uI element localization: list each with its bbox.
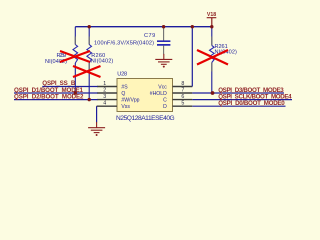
wire: V18 power rail bbox=[75, 26, 212, 28]
wire: right resistor column (rail to MODE2) bbox=[88, 27, 90, 100]
svg-text:U28: U28 bbox=[117, 72, 127, 78]
lead gray upper R261 bbox=[211, 37, 213, 46]
wire Vss (pin 4) down bbox=[96, 106, 98, 122]
svg-text:D: D bbox=[163, 104, 167, 110]
svg-text:#HOLD: #HOLD bbox=[150, 91, 167, 97]
svg-text:1: 1 bbox=[103, 81, 106, 87]
svg-text:C79: C79 bbox=[144, 33, 155, 39]
svg-text:C: C bbox=[163, 98, 167, 104]
svg-text:Vcc: Vcc bbox=[158, 85, 167, 91]
pin 7 stub bbox=[173, 92, 193, 94]
lead gray upper R259 bbox=[74, 37, 76, 45]
wire QSPI_SS_B bbox=[42, 86, 97, 88]
resistor R261 bbox=[210, 46, 215, 63]
pin 8 stub bbox=[173, 86, 193, 88]
svg-text:QSPI_D0/BOOT_MODE0: QSPI_D0/BOOT_MODE0 bbox=[218, 100, 285, 107]
junction dot MODE3/R261 bbox=[211, 91, 215, 95]
capacitor C79 lead upper bbox=[163, 27, 165, 41]
capacitor C79 plates bbox=[157, 41, 170, 45]
svg-text:#S: #S bbox=[121, 85, 128, 91]
svg-text:2: 2 bbox=[103, 88, 106, 94]
svg-text:NI(0402): NI(0402) bbox=[91, 58, 114, 64]
pin 5 stub bbox=[173, 105, 193, 107]
resistor R259 bbox=[73, 45, 78, 64]
NI cross X over R259/R260 bbox=[60, 51, 90, 62]
svg-text:4: 4 bbox=[103, 101, 106, 107]
IC U28 body bbox=[117, 79, 173, 112]
lead gray lower R261 bbox=[211, 63, 213, 72]
wire Vcc riser (pin 8 to rail) bbox=[191, 27, 193, 87]
wire: left resistor column (rail to MODE1) bbox=[74, 27, 76, 93]
capacitor C79 lead lower bbox=[163, 46, 165, 55]
junction dot MODE2/R260 bbox=[88, 98, 91, 101]
svg-text:N25Q128A11ESE40G: N25Q128A11ESE40G bbox=[116, 115, 175, 122]
svg-text:QSPI_D2/BOOT_MODE2: QSPI_D2/BOOT_MODE2 bbox=[14, 93, 84, 100]
junction dot MODE1/R259 bbox=[74, 91, 77, 94]
NI cross X over R261 bbox=[197, 50, 228, 65]
svg-text:#W/Vpp: #W/Vpp bbox=[121, 98, 139, 104]
wire QSPI_D1/BOOT_MODE1 bbox=[14, 92, 98, 94]
svg-text:Vss: Vss bbox=[121, 104, 130, 110]
svg-text:100nF/6.3V/X5R(0402): 100nF/6.3V/X5R(0402) bbox=[94, 40, 154, 46]
ground below C79 bbox=[155, 54, 172, 64]
lead gray lower R260 bbox=[88, 63, 90, 72]
pin 1 stub bbox=[97, 86, 117, 88]
svg-text:Q: Q bbox=[121, 91, 125, 97]
svg-text:8: 8 bbox=[181, 81, 184, 87]
wire QSPI_SCLK/BOOT_MODE4 bbox=[192, 99, 292, 101]
resistor R260 bbox=[87, 45, 92, 64]
svg-text:3: 3 bbox=[103, 94, 106, 100]
power symbol V18 bbox=[207, 12, 217, 27]
svg-text:5: 5 bbox=[181, 101, 184, 107]
svg-text:6: 6 bbox=[181, 94, 184, 100]
lead gray upper R260 bbox=[88, 37, 90, 45]
pin 3 stub bbox=[97, 99, 117, 101]
pin 4 stub bbox=[97, 105, 117, 107]
NI cross X lower right bbox=[73, 66, 101, 77]
wire QSPI_D2/BOOT_MODE2 bbox=[14, 99, 98, 101]
junction dot rail/right resistor bbox=[88, 25, 91, 28]
junction dot rail/capacitor bbox=[162, 25, 165, 28]
junction dot rail/V18-R261 bbox=[210, 25, 213, 28]
pin 6 stub bbox=[173, 99, 193, 101]
junction dot rail/Vcc riser bbox=[191, 25, 194, 28]
pin 2 stub bbox=[97, 92, 117, 94]
wire: R261 column (V18 rail to MODE3) bbox=[211, 27, 214, 93]
ground below Vss bbox=[88, 122, 105, 133]
wire QSPI_D0/BOOT_MODE0 bbox=[192, 105, 285, 107]
wire QSPI_D3/BOOT_MODE3 bbox=[192, 92, 284, 94]
svg-text:7: 7 bbox=[181, 88, 184, 94]
